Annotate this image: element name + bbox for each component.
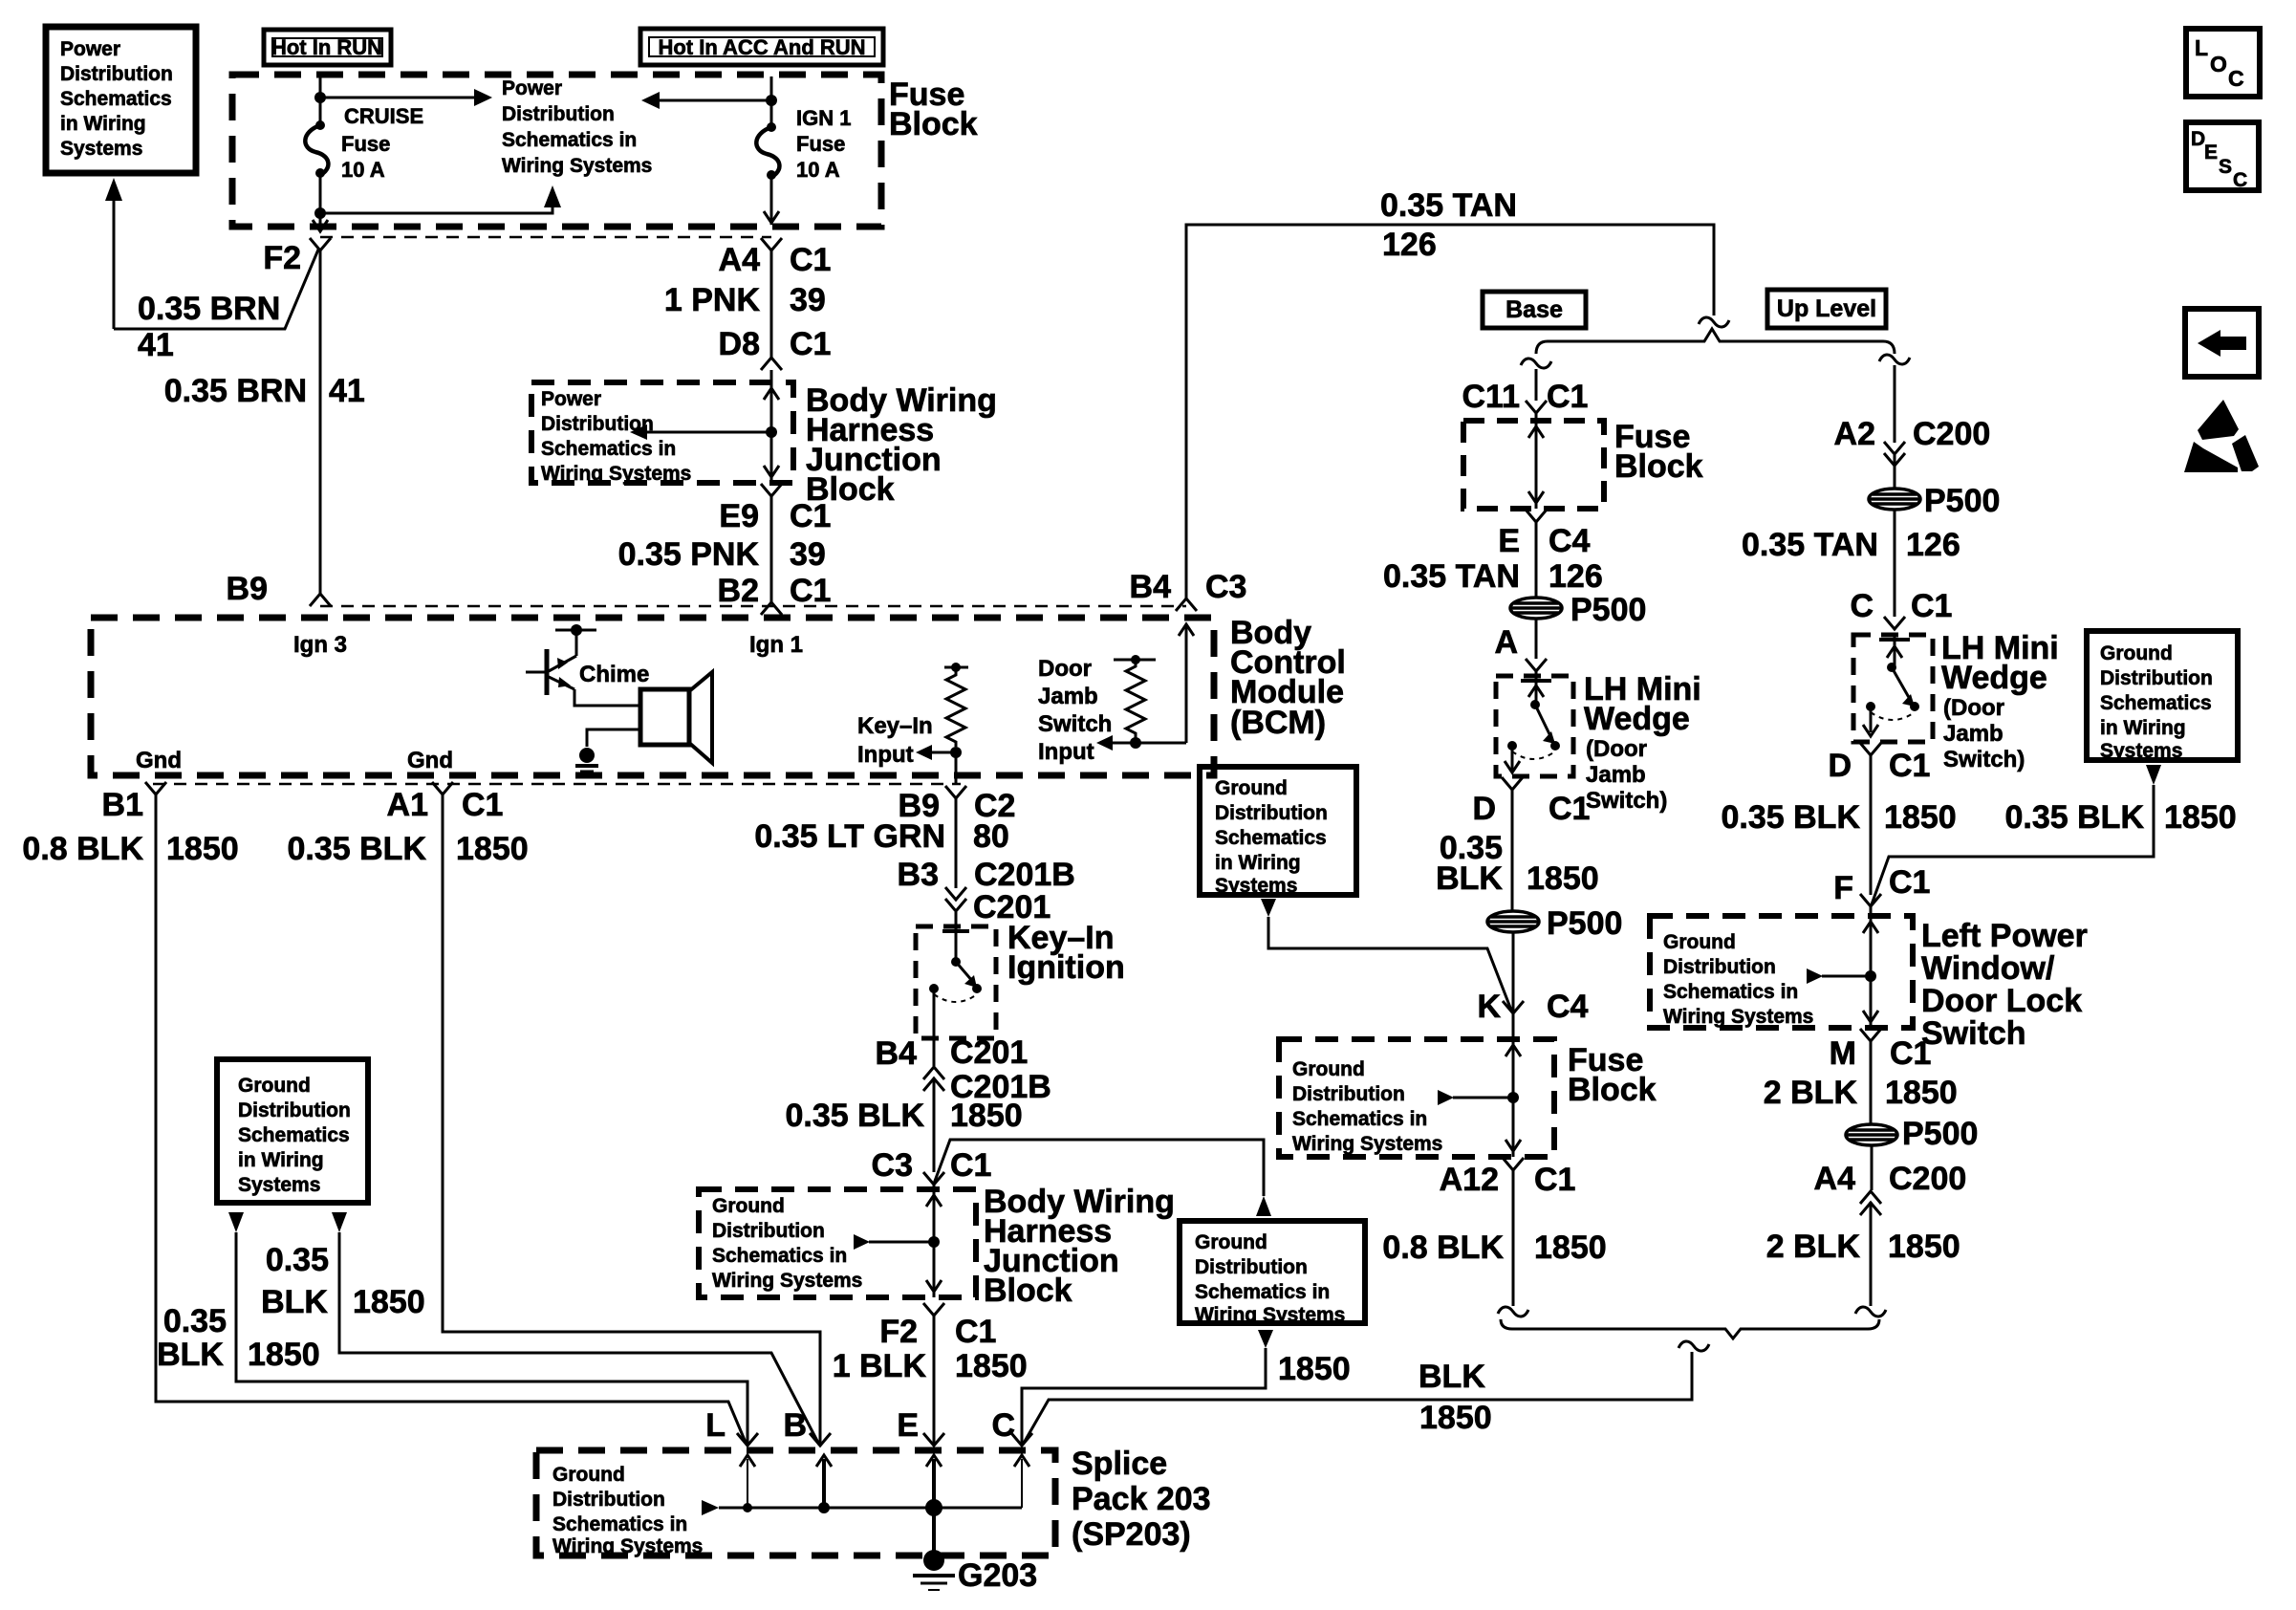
note box: Ground Distribution Schematics in Wiring Systems (mid) bbox=[1200, 767, 1356, 895]
svg-text:C201B: C201B bbox=[974, 857, 1075, 893]
svg-text:Power: Power bbox=[541, 388, 601, 410]
svg-text:Block: Block bbox=[889, 106, 978, 142]
svg-text:C201: C201 bbox=[950, 1034, 1028, 1071]
svg-text:Systems: Systems bbox=[238, 1174, 320, 1196]
svg-text:Jamb: Jamb bbox=[1038, 684, 1098, 709]
svg-text:Ground: Ground bbox=[1195, 1231, 1267, 1253]
fuse IGN 1 10A bbox=[767, 122, 776, 132]
connector F2 bbox=[310, 238, 331, 250]
wire break tilde (up level bottom) bbox=[1855, 1307, 1886, 1316]
connector E bbox=[923, 1433, 944, 1446]
svg-text:K: K bbox=[1477, 989, 1501, 1025]
svg-text:41: 41 bbox=[138, 327, 174, 363]
wire 0.35 BLK 1850 branch right to GDS arrow bbox=[934, 1140, 1264, 1196]
connector P500 base 2 bbox=[1487, 911, 1539, 932]
label Fuse Block base bbox=[1614, 419, 1703, 485]
note box: Ground Distribution Schematics in Wiring Systems (far right) bbox=[2087, 631, 2238, 760]
svg-text:126: 126 bbox=[1906, 527, 1960, 563]
wire B4 up and across: 0.35 TAN 126 bbox=[1186, 225, 1714, 598]
wire break tilde (up level top) bbox=[1879, 355, 1910, 364]
svg-text:Distribution: Distribution bbox=[552, 1489, 665, 1511]
svg-text:P500: P500 bbox=[1924, 483, 2000, 519]
svg-text:0.8 BLK: 0.8 BLK bbox=[1382, 1229, 1504, 1266]
svg-text:1850: 1850 bbox=[1884, 799, 1957, 836]
svg-text:1850: 1850 bbox=[950, 1098, 1023, 1134]
svg-text:B2: B2 bbox=[718, 573, 759, 609]
svg-text:C1: C1 bbox=[1889, 864, 1930, 901]
component box: Fuse Block base (dashed) bbox=[1463, 421, 1604, 509]
connector A2/C200 inline (double chevron down) bbox=[1884, 442, 1905, 454]
svg-text:1850: 1850 bbox=[166, 831, 239, 867]
transistor Q chime: collector node bbox=[555, 629, 596, 632]
svg-text:Left Power: Left Power bbox=[1921, 918, 2088, 954]
svg-text:B1: B1 bbox=[102, 787, 143, 823]
note box text bbox=[60, 38, 173, 160]
ref text: Power Distribution Schematics in Wiring Systems (inside fuse block) bbox=[502, 77, 652, 177]
svg-text:M: M bbox=[1830, 1035, 1856, 1072]
svg-text:D8: D8 bbox=[719, 326, 760, 362]
ref text inside junction block bbox=[541, 388, 691, 485]
arrow door jamb switch input bbox=[1112, 742, 1186, 745]
junction dot bbox=[314, 92, 326, 103]
icon box back arrow bbox=[2185, 309, 2259, 377]
svg-text:Wiring Systems: Wiring Systems bbox=[1292, 1133, 1442, 1155]
splice riser B bbox=[822, 1459, 826, 1508]
svg-text:Door: Door bbox=[1038, 656, 1092, 682]
svg-text:C1: C1 bbox=[462, 787, 503, 823]
label LH Mini Wedge (Door Jamb Switch) base bbox=[1584, 671, 1701, 737]
svg-text:F: F bbox=[1833, 870, 1853, 906]
svg-text:Hot In RUN: Hot In RUN bbox=[271, 35, 382, 59]
icon box DESC bbox=[2186, 122, 2259, 190]
label Fuse Block 2 bbox=[1568, 1042, 1657, 1108]
note box: Ground Distribution Schematics in Wiring Systems (center) bbox=[1180, 1221, 1365, 1323]
svg-text:Switch: Switch bbox=[1921, 1015, 2026, 1052]
wire A4 down to junction block bbox=[770, 250, 773, 358]
svg-text:Gnd: Gnd bbox=[136, 748, 182, 773]
svg-text:0.35 TAN: 0.35 TAN bbox=[1383, 558, 1520, 595]
svg-text:0.35 BLK: 0.35 BLK bbox=[2005, 799, 2145, 836]
svg-text:Jamb: Jamb bbox=[1586, 762, 1646, 788]
svg-text:Distribution: Distribution bbox=[60, 63, 173, 85]
arrow up into GDS center box bbox=[1258, 1330, 1273, 1348]
svg-text:Ground: Ground bbox=[1663, 931, 1736, 953]
svg-text:39: 39 bbox=[790, 536, 826, 573]
connector D8 bbox=[761, 358, 782, 370]
svg-text:Hot In ACC And RUN: Hot In ACC And RUN bbox=[658, 35, 865, 59]
svg-text:Chime: Chime bbox=[579, 662, 649, 687]
switch LH mini wedge base bbox=[1521, 679, 1551, 683]
svg-text:Schematics in: Schematics in bbox=[1292, 1108, 1427, 1130]
svg-text:Wiring Systems: Wiring Systems bbox=[552, 1535, 703, 1557]
BCM connector-face fine dashes bbox=[320, 605, 1186, 608]
svg-text:D: D bbox=[1828, 748, 1852, 784]
svg-text:Wedge: Wedge bbox=[1941, 660, 2047, 696]
svg-text:1850: 1850 bbox=[456, 831, 529, 867]
svg-text:1850: 1850 bbox=[955, 1348, 1028, 1384]
svg-text:Systems: Systems bbox=[60, 138, 142, 160]
wire A1 ground run bbox=[443, 794, 820, 1446]
label 0.35 TAN 126 up level bbox=[1742, 527, 1960, 624]
connector B4/C201 inline (double chevron up) bbox=[923, 1067, 944, 1079]
ground (chime) bbox=[579, 748, 595, 763]
svg-text:2 BLK: 2 BLK bbox=[1764, 1075, 1858, 1111]
svg-text:C200: C200 bbox=[1889, 1161, 1966, 1197]
connector C201/C201B inline (double chevron down) bbox=[945, 887, 966, 900]
svg-text:0.35: 0.35 bbox=[266, 1242, 329, 1278]
svg-text:B4: B4 bbox=[1130, 569, 1172, 605]
svg-text:Wiring Systems: Wiring Systems bbox=[712, 1270, 862, 1292]
note box: Power Distribution Schematics in Wiring Systems (top left) bbox=[46, 27, 196, 173]
wire 0.35 BLK 1850 to splice L bbox=[236, 1232, 747, 1446]
svg-text:Systems: Systems bbox=[1215, 875, 1297, 897]
svg-text:1850: 1850 bbox=[1419, 1400, 1492, 1436]
svg-text:Schematics in: Schematics in bbox=[712, 1245, 847, 1267]
arrow up (wire into GDS box) bbox=[1256, 1196, 1271, 1216]
splice riser E and ground drop bbox=[932, 1459, 936, 1508]
svg-text:Door Lock: Door Lock bbox=[1921, 983, 2082, 1019]
connector L bbox=[737, 1433, 758, 1446]
switch key-in ignition bbox=[942, 929, 969, 933]
wire through junction block bbox=[770, 382, 773, 483]
label Body Wiring Harness Junction Block 2 bbox=[984, 1184, 1175, 1309]
svg-text:0.35 TAN: 0.35 TAN bbox=[1742, 527, 1878, 563]
svg-text:Distribution: Distribution bbox=[712, 1220, 825, 1242]
svg-text:Wiring Systems: Wiring Systems bbox=[502, 155, 652, 177]
svg-text:0.35 BRN: 0.35 BRN bbox=[164, 373, 307, 409]
svg-text:Schematics in: Schematics in bbox=[1195, 1281, 1330, 1303]
svg-text:C1: C1 bbox=[1890, 1035, 1931, 1072]
svg-text:B3: B3 bbox=[898, 857, 939, 893]
svg-text:in Wiring: in Wiring bbox=[2100, 717, 2186, 739]
label Splice Pack 203 (SP203) bbox=[1072, 1446, 1211, 1553]
wire break tilde (Base column top) bbox=[1521, 359, 1551, 368]
svg-text:D: D bbox=[2191, 128, 2205, 150]
component box: Body Control Module BCM (dashed) bbox=[91, 618, 1214, 775]
label box: Up Level bbox=[1767, 290, 1886, 328]
speaker chime bbox=[640, 689, 689, 745]
svg-text:10 A: 10 A bbox=[796, 158, 840, 182]
svg-text:B9: B9 bbox=[227, 571, 268, 607]
svg-text:D: D bbox=[1472, 791, 1496, 827]
svg-text:E: E bbox=[1498, 523, 1520, 559]
svg-text:Distribution: Distribution bbox=[2100, 667, 2213, 689]
svg-text:C: C bbox=[2228, 66, 2244, 91]
svg-text:1850: 1850 bbox=[353, 1284, 425, 1320]
down arrowhead at fuse block exit bbox=[313, 220, 328, 231]
branch to up-arrow at ref text bbox=[320, 207, 552, 213]
svg-text:C1: C1 bbox=[790, 498, 831, 534]
wire branch to Power Distribution ref (right arrow) bbox=[320, 97, 475, 99]
svg-text:Block: Block bbox=[1568, 1072, 1657, 1108]
icon box LOC bbox=[2186, 29, 2260, 97]
svg-text:A4: A4 bbox=[1814, 1161, 1856, 1197]
connector M/C1 bbox=[1860, 1029, 1881, 1041]
connector A bbox=[1526, 659, 1547, 671]
label IGN 1 Fuse 10 A bbox=[796, 106, 851, 182]
svg-text:CRUISE: CRUISE bbox=[344, 104, 423, 128]
svg-text:BLK: BLK bbox=[1419, 1359, 1485, 1395]
wire 0.35 BLK 1850 to splice B bbox=[339, 1232, 819, 1445]
svg-text:C11: C11 bbox=[1462, 379, 1521, 415]
svg-text:in Wiring: in Wiring bbox=[1215, 852, 1301, 874]
connector E9 bbox=[761, 484, 782, 496]
speaker ground lead bbox=[587, 729, 640, 747]
arrow down from note box (right) bbox=[332, 1212, 347, 1232]
svg-text:C1: C1 bbox=[1889, 748, 1930, 784]
BCM pin labels bbox=[136, 632, 803, 773]
svg-text:0.35: 0.35 bbox=[163, 1303, 227, 1339]
splice riser C bbox=[1021, 1459, 1023, 1508]
wire 1850 from C to GDS center box bbox=[1022, 1348, 1266, 1445]
junction dot and feed arrow inside LPW switch bbox=[1865, 970, 1876, 982]
svg-text:BLK: BLK bbox=[1436, 860, 1503, 897]
svg-text:Input: Input bbox=[857, 742, 914, 768]
connector K/C4 bbox=[1503, 1001, 1524, 1013]
svg-text:1850: 1850 bbox=[1888, 1229, 1960, 1265]
svg-text:0.35 BLK: 0.35 BLK bbox=[1722, 799, 1861, 836]
svg-text:10 A: 10 A bbox=[341, 158, 385, 182]
svg-text:Distribution: Distribution bbox=[502, 103, 615, 125]
arrow down from far right note box bbox=[2146, 765, 2161, 785]
icon ESD symbol bbox=[2198, 400, 2239, 440]
label Body Wiring Harness Junction Block bbox=[806, 382, 997, 508]
svg-text:0.8 BLK: 0.8 BLK bbox=[22, 831, 143, 867]
svg-text:Ground: Ground bbox=[552, 1464, 625, 1486]
svg-text:C200: C200 bbox=[1913, 416, 1990, 452]
connector face fine-dash below fuse block bbox=[320, 236, 771, 239]
label box: Base bbox=[1483, 292, 1586, 328]
wire below IGN1 fuse with down arrow bbox=[770, 175, 773, 225]
svg-text:Ign 1: Ign 1 bbox=[749, 632, 803, 658]
svg-text:E: E bbox=[2204, 141, 2218, 163]
svg-text:Fuse: Fuse bbox=[341, 132, 390, 156]
svg-text:1850: 1850 bbox=[1534, 1229, 1607, 1266]
ref text inside splice pack bbox=[552, 1464, 703, 1557]
connector B1 bbox=[145, 782, 166, 794]
svg-text:in Wiring: in Wiring bbox=[238, 1149, 324, 1171]
svg-text:41: 41 bbox=[329, 373, 365, 409]
svg-text:Switch): Switch) bbox=[1586, 788, 1667, 814]
svg-text:Block: Block bbox=[1614, 448, 1703, 485]
connector B bbox=[810, 1433, 831, 1446]
resistor key-in input bbox=[944, 666, 968, 669]
svg-text:L: L bbox=[2195, 35, 2208, 60]
transistor chime collector diagonal bbox=[549, 656, 576, 671]
connector B9/C2 bbox=[945, 786, 966, 798]
connector C bbox=[1011, 1433, 1032, 1446]
svg-text:1 PNK: 1 PNK bbox=[664, 282, 761, 318]
svg-text:Ign 3: Ign 3 bbox=[293, 632, 347, 658]
svg-text:Systems: Systems bbox=[2100, 740, 2182, 762]
wire: Hot In ACC feed into IGN 1 fuse bbox=[770, 76, 773, 127]
svg-text:Ground: Ground bbox=[238, 1075, 311, 1097]
wire: Hot In RUN feed into CRUISE fuse bbox=[319, 76, 322, 125]
svg-text:C1: C1 bbox=[955, 1314, 996, 1350]
label CRUISE Fuse 10 A bbox=[341, 104, 423, 182]
switch LH mini wedge up level bbox=[1879, 638, 1910, 642]
wire F2 down to BCM bbox=[319, 250, 322, 594]
label 0.35 BRN 41 (vertical run) bbox=[164, 373, 365, 409]
connector P500 up level 2 bbox=[1846, 1124, 1897, 1145]
arrow key-in input bbox=[931, 751, 956, 754]
arrow down from note box (left) bbox=[228, 1212, 244, 1232]
svg-text:Distribution: Distribution bbox=[541, 413, 654, 435]
connector P500 base bbox=[1510, 598, 1562, 619]
svg-text:Ignition: Ignition bbox=[1007, 949, 1125, 986]
svg-text:A12: A12 bbox=[1440, 1162, 1499, 1198]
wire B1 ground run bbox=[156, 794, 747, 1445]
component box: Fuse Block 2 (dashed) bbox=[1279, 1039, 1554, 1157]
svg-text:1 BLK: 1 BLK bbox=[833, 1348, 927, 1384]
svg-text:1850: 1850 bbox=[1278, 1351, 1351, 1387]
svg-text:0.35 TAN: 0.35 TAN bbox=[1380, 187, 1517, 224]
ref text inside fuse block 2 bbox=[1292, 1058, 1442, 1155]
svg-text:126: 126 bbox=[1549, 558, 1603, 595]
split brace Base/Up Level bbox=[1536, 329, 1895, 354]
svg-text:Fuse: Fuse bbox=[796, 132, 845, 156]
label Body Control Module (BCM) bbox=[1230, 615, 1346, 741]
svg-text:F2: F2 bbox=[263, 240, 301, 276]
svg-text:Key–In: Key–In bbox=[857, 713, 933, 739]
wire up to B4 bbox=[1185, 626, 1188, 743]
svg-text:E9: E9 bbox=[719, 498, 759, 534]
svg-text:Schematics in: Schematics in bbox=[502, 129, 637, 151]
svg-text:C1: C1 bbox=[1911, 588, 1952, 624]
wire break tilde (base column bottom) bbox=[1498, 1307, 1528, 1316]
svg-text:O: O bbox=[2210, 52, 2227, 76]
junction dot and feed arrow inside fuse block 2 bbox=[1507, 1092, 1519, 1103]
wire: 0.35 BRN 41 from F2 to note box arrow bbox=[114, 250, 318, 329]
junction dot and left arrow inside bbox=[928, 1236, 940, 1248]
svg-text:L: L bbox=[705, 1407, 726, 1444]
svg-text:Ground: Ground bbox=[2100, 642, 2173, 664]
connector B4/C3 bbox=[1176, 598, 1197, 611]
svg-text:C3: C3 bbox=[872, 1147, 913, 1184]
svg-text:S: S bbox=[2219, 156, 2232, 178]
switch box: Left Power Window Door Lock Switch (dashed) bbox=[1650, 916, 1913, 1028]
svg-text:39: 39 bbox=[790, 282, 826, 318]
svg-text:Jamb: Jamb bbox=[1943, 721, 2004, 747]
connector A4/C1 bbox=[761, 238, 782, 250]
svg-text:Distribution: Distribution bbox=[238, 1099, 351, 1121]
connector D up level bbox=[1860, 743, 1881, 755]
svg-text:C1: C1 bbox=[790, 573, 831, 609]
connector C up level bbox=[1884, 617, 1905, 629]
wire from mid note box to K bbox=[1268, 917, 1512, 1012]
svg-text:G203: G203 bbox=[958, 1557, 1037, 1594]
svg-text:B: B bbox=[783, 1407, 807, 1444]
svg-text:80: 80 bbox=[973, 818, 1009, 855]
svg-text:(SP203): (SP203) bbox=[1072, 1516, 1191, 1553]
svg-text:0.35 BRN: 0.35 BRN bbox=[138, 291, 280, 327]
svg-text:A1: A1 bbox=[387, 787, 428, 823]
label Key-In Ignition bbox=[1007, 920, 1125, 986]
svg-text:Power: Power bbox=[60, 38, 120, 60]
component box: Body Wiring Harness Junction Block 2 (dashed) bbox=[699, 1189, 976, 1297]
svg-text:Wiring Systems: Wiring Systems bbox=[1195, 1304, 1345, 1326]
svg-text:A: A bbox=[1494, 624, 1518, 661]
svg-text:C1: C1 bbox=[790, 326, 831, 362]
arrow up into note box bbox=[113, 198, 116, 329]
label box: Hot In RUN bbox=[264, 30, 391, 65]
svg-text:0.35 PNK: 0.35 PNK bbox=[618, 536, 760, 573]
svg-text:Block: Block bbox=[984, 1273, 1072, 1309]
svg-text:Schematics: Schematics bbox=[1215, 827, 1327, 849]
svg-text:Schematics: Schematics bbox=[60, 88, 172, 110]
svg-text:C1: C1 bbox=[1547, 379, 1588, 415]
ref text inside junction block 2 bbox=[712, 1195, 862, 1292]
wire below fuse bbox=[319, 173, 322, 225]
connector A12/C1 bbox=[1503, 1158, 1524, 1170]
svg-text:Input: Input bbox=[1038, 739, 1094, 765]
wire BLK 1850 merged run to C bbox=[1023, 1352, 1692, 1445]
svg-text:Wiring Systems: Wiring Systems bbox=[541, 463, 691, 485]
wire key-in down bbox=[955, 752, 958, 785]
svg-text:2 BLK: 2 BLK bbox=[1766, 1229, 1861, 1265]
label Fuse Block bbox=[889, 76, 978, 142]
svg-text:F2: F2 bbox=[879, 1314, 918, 1350]
svg-text:Schematics in: Schematics in bbox=[1663, 981, 1798, 1003]
splice riser L bbox=[747, 1459, 748, 1508]
transistor chime base bar bbox=[545, 649, 550, 695]
svg-text:C1: C1 bbox=[790, 242, 831, 278]
svg-text:Pack 203: Pack 203 bbox=[1072, 1481, 1211, 1517]
svg-text:Distribution: Distribution bbox=[1663, 956, 1776, 978]
connector F2/C1 (splice feed) bbox=[923, 1303, 944, 1316]
component box: Splice Pack 203 (dashed) bbox=[536, 1450, 1055, 1556]
svg-text:B4: B4 bbox=[876, 1035, 918, 1072]
svg-text:Ground: Ground bbox=[1292, 1058, 1365, 1080]
svg-text:1850: 1850 bbox=[1527, 860, 1599, 897]
svg-text:Switch): Switch) bbox=[1943, 747, 2025, 772]
svg-text:Ground: Ground bbox=[712, 1195, 785, 1217]
svg-text:in Wiring: in Wiring bbox=[60, 113, 146, 135]
svg-text:(Door: (Door bbox=[1943, 695, 2004, 721]
label Key-In Input bbox=[857, 713, 933, 768]
svg-text:C1: C1 bbox=[1534, 1162, 1575, 1198]
svg-text:A2: A2 bbox=[1834, 416, 1875, 452]
branch left arrow to ref text bbox=[660, 99, 771, 102]
svg-text:Schematics in: Schematics in bbox=[552, 1513, 687, 1535]
svg-text:C: C bbox=[1850, 588, 1874, 624]
resistor door jamb switch input bbox=[1114, 659, 1156, 662]
splice pack connector labels L B E C bbox=[705, 1407, 1015, 1444]
svg-text:Distribution: Distribution bbox=[1215, 802, 1328, 824]
connector C11/C1 bbox=[1526, 401, 1547, 413]
connector C3/C1 bbox=[923, 1172, 944, 1185]
svg-text:Power: Power bbox=[502, 77, 562, 99]
svg-text:Wedge: Wedge bbox=[1584, 701, 1690, 737]
svg-text:1850: 1850 bbox=[1885, 1075, 1958, 1111]
svg-text:0.35 BLK: 0.35 BLK bbox=[288, 831, 427, 867]
svg-text:BLK: BLK bbox=[261, 1284, 328, 1320]
svg-text:C1: C1 bbox=[1549, 791, 1590, 827]
wire 0.35 BLK 1850 from far right box to F bbox=[1872, 785, 2154, 904]
splice bus with feed arrow bbox=[702, 1500, 719, 1515]
svg-text:Wiring Systems: Wiring Systems bbox=[1663, 1006, 1813, 1028]
connector D base bbox=[1502, 777, 1523, 790]
svg-text:Splice: Splice bbox=[1072, 1446, 1167, 1482]
arrow down from mid note box bbox=[1261, 899, 1276, 917]
svg-text:0.35 BLK: 0.35 BLK bbox=[786, 1098, 925, 1134]
wire break tilde (merged drop) bbox=[1679, 1341, 1709, 1351]
switch box: LH Mini Wedge base (dashed) bbox=[1496, 676, 1573, 776]
svg-text:1850: 1850 bbox=[2164, 799, 2237, 836]
label Door Jamb Switch Input bbox=[1038, 656, 1112, 765]
svg-text:Window/: Window/ bbox=[1921, 950, 2055, 987]
label box: Hot In ACC And RUN bbox=[640, 29, 883, 65]
